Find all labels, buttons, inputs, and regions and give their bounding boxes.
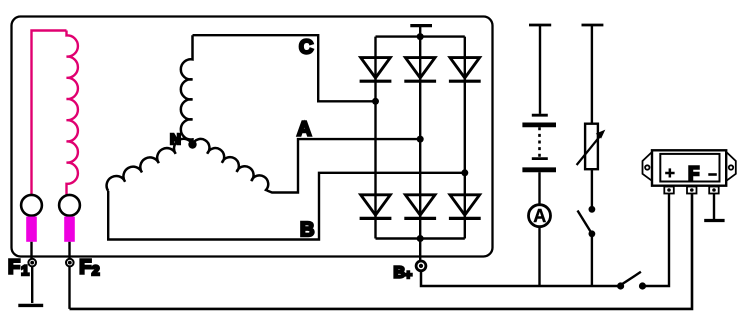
wire B+ to switch bus [421,270,621,286]
ground at F1 [18,304,43,307]
bridge right column [464,37,466,239]
wire switch to bus [591,234,593,286]
svg-text:A: A [297,119,311,141]
brush left [26,217,37,242]
junction dot B phase [461,169,468,176]
bridge middle column [419,27,421,239]
node N dot [188,140,196,148]
diode D2 (top middle) [404,58,436,82]
wire battery to ammeter [538,172,540,204]
regulator terminal - [709,187,719,194]
switch S1 (field switch, open) [589,206,596,213]
stator coil C (vertical) [181,35,193,144]
bridge bottom bus [376,237,465,239]
svg-text:F: F [688,163,699,183]
wire - terminal to ground [713,194,715,220]
diode D3 (top right) [449,58,481,82]
svg-text:B: B [300,219,314,241]
rotor field wire (magenta) [32,31,67,196]
wire B phase to bridge [108,173,465,240]
wire switch to regulator + [643,193,670,286]
brush right [64,217,75,242]
wire battery top [539,25,541,114]
svg-text:2: 2 [92,262,100,278]
svg-text:N: N [170,131,181,148]
wire C phase to bridge [193,35,376,101]
wire ammeter to bus [538,227,540,286]
junction dot bottom bus [417,235,424,242]
junction dot C phase [372,98,379,105]
label - [708,173,717,176]
wire bridge to B+ [419,239,421,262]
regulator terminal F [687,187,697,194]
wire rheostat to switch [591,169,593,209]
regulator left ear [643,152,653,182]
svg-text:A: A [533,206,546,226]
ground at regulator [704,219,724,222]
switch S2 (main switch, open) [617,282,624,289]
wire brush right to F2 [68,242,70,258]
alternator housing [12,17,493,257]
svg-text:+: + [405,267,413,282]
diode D5 (bottom middle) [404,195,436,219]
wire rheostat top [591,25,593,124]
bottom bus wire (F2 to regulator F) [70,193,693,309]
diode D4 (bottom left) [360,195,392,219]
label + [665,168,674,177]
wire F1 down [31,267,33,303]
junction dot top bus [417,33,424,40]
rheostat R body [585,124,598,170]
svg-text:B: B [394,264,406,281]
regulator right ear [726,152,736,182]
wire brush left to F1 [30,242,32,258]
battery top terminal bar [529,24,551,27]
rheostat top terminal bar [582,24,604,27]
diode D6 (bottom right) [449,195,481,219]
bridge top bus [376,35,465,37]
slip ring right [59,195,80,216]
wire A phase to bridge [267,139,420,192]
battery GB plates [532,114,548,117]
svg-text:C: C [299,37,313,59]
wire F2 down to bottom bus [68,267,70,309]
stator coil A (to lower-right) [193,139,269,191]
terminal F2 [66,259,74,267]
regulator terminal + [664,187,674,194]
ammeter [529,205,551,227]
junction dot A phase [417,136,424,143]
regulator body [652,150,726,185]
diode D1 (top left) [360,58,392,82]
svg-text:F: F [79,256,91,278]
bridge left column [374,37,376,239]
svg-text:F: F [8,256,20,278]
terminal F1 [28,259,36,267]
slip ring left [21,195,42,216]
terminal B+ [416,261,426,271]
svg-text:1: 1 [21,262,29,278]
field coil (magenta) [67,31,78,196]
rheostat arrow [577,136,601,165]
stator coil B (to lower-left) [107,139,193,191]
internal ground bar [410,24,432,27]
